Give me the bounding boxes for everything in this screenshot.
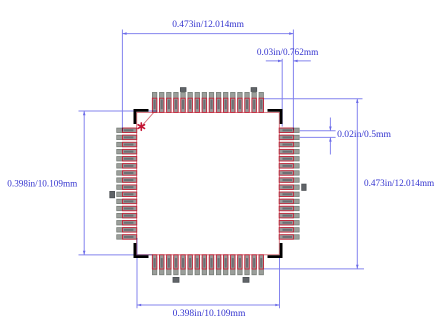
pad 40 (bottom row): [202, 255, 207, 275]
pad 27 (right column): [279, 199, 299, 204]
via square (right, near pad 25): [302, 184, 306, 190]
lead dimension arrow left (tail): [266, 60, 282, 62]
top dimension arrow left: [122, 32, 126, 35]
lead dimension arrow right (tail): [293, 60, 310, 62]
pitch dimension arrow upper: [329, 118, 331, 131]
pad 41 (bottom row): [209, 255, 214, 275]
pad 9 (left column): [117, 185, 137, 190]
left dimension arrow top: [83, 111, 86, 115]
svg-text:0.473in/12.014mm: 0.473in/12.014mm: [364, 179, 435, 189]
pad 5 (left column): [117, 156, 137, 161]
pad 3 (top row): [167, 92, 172, 112]
pad 16 (top row): [259, 92, 264, 112]
pad 2 (top row): [159, 92, 164, 112]
courtyard corner bracket (bottom-right): [268, 243, 283, 258]
pad 21 (right column): [279, 156, 299, 161]
via square (bottom, near pad 36): [173, 277, 179, 282]
pad 2 (left column): [117, 135, 137, 140]
pad 43 (bottom row): [223, 255, 228, 275]
pad 32 (right column): [279, 235, 299, 240]
pad 24 (right column): [279, 178, 299, 183]
top dimension line: [122, 33, 293, 35]
pin-1 asterisk marker: [138, 123, 144, 130]
pad 4 (top row): [174, 92, 179, 112]
pad 7 (left column): [117, 171, 137, 176]
right dimension 0.473in/12.014mm: extension line top: [264, 98, 363, 100]
pad 11 (top row): [223, 92, 228, 112]
courtyard corner bracket (bottom-left): [134, 243, 149, 258]
pitch dimension arrow lower: [329, 137, 331, 154]
pad 42 (bottom row): [216, 255, 221, 275]
pad 17 (right column): [279, 128, 299, 133]
top dimension arrow right: [289, 32, 293, 35]
pad 1 (top row): [152, 92, 157, 112]
component body outline (silkscreen square): [137, 112, 280, 254]
pad 31 (right column): [279, 228, 299, 233]
pad 23 (right column): [279, 171, 299, 176]
pad 8 (top row): [202, 92, 207, 112]
pad 12 (top row): [231, 92, 236, 112]
pitch dimension 0.02in/0.5mm: extension line upper: [300, 130, 336, 132]
right dimension arrow top: [356, 99, 359, 103]
pad 15 (left column): [117, 228, 137, 233]
bottom dimension arrow left: [137, 304, 141, 307]
pad 15 (top row): [252, 92, 257, 112]
pad 45 (bottom row): [238, 255, 243, 275]
pad 48 (bottom row): [259, 255, 264, 275]
bottom dimension 0.398in/10.109mm: extension line left: [136, 238, 138, 308]
right dimension arrow bottom: [356, 265, 359, 269]
pad 9 (top row): [209, 92, 214, 112]
top dimension: extension line right: [292, 30, 294, 131]
pad 1 (left column): [117, 128, 137, 133]
pad 10 (left column): [117, 192, 137, 197]
left dimension line: [83, 111, 85, 255]
lead dimension 0.03in/0.762mm: extension line left: [281, 59, 283, 127]
pad 13 (left column): [117, 213, 137, 218]
bottom dimension: extension line right: [279, 257, 281, 309]
pad 6 (top row): [188, 92, 193, 112]
pad 16 (left column): [117, 235, 137, 240]
pad 8 (left column): [117, 178, 137, 183]
pad 10 (top row): [216, 92, 221, 112]
left dimension arrow bottom: [83, 251, 86, 255]
courtyard corner bracket (top-left): [134, 109, 149, 124]
bottom dimension arrow right: [275, 304, 279, 307]
pad 36 (bottom row): [174, 255, 179, 275]
pad 18 (right column): [279, 135, 299, 140]
svg-text:0.03in/0.762mm: 0.03in/0.762mm: [257, 48, 319, 58]
pad 44 (bottom row): [231, 255, 236, 275]
svg-text:0.398in/10.109mm: 0.398in/10.109mm: [173, 309, 246, 319]
top dimension 0.473in/12.014mm: extension line left: [121, 30, 123, 132]
pad 38 (bottom row): [188, 255, 193, 275]
left dimension: extension line bottom: [79, 254, 153, 256]
pad 14 (left column): [117, 220, 137, 225]
via square (top, near pad 15): [251, 88, 257, 92]
svg-text:0.398in/10.109mm: 0.398in/10.109mm: [7, 180, 78, 190]
pad 13 (top row): [238, 92, 243, 112]
pin-1 indicator line: [141, 112, 154, 127]
pad 39 (bottom row): [195, 255, 200, 275]
left dimension 0.398in/10.109mm: extension line top: [79, 110, 158, 112]
pad 12 (left column): [117, 206, 137, 211]
pad 29 (right column): [279, 213, 299, 218]
courtyard corner bracket (top-right): [268, 109, 283, 124]
via square (top, near pad 5): [180, 88, 186, 92]
right dimension line: [356, 99, 358, 269]
pad 25 (right column): [279, 185, 299, 190]
pad 26 (right column): [279, 192, 299, 197]
via square (bottom, near pad 45): [243, 277, 249, 282]
pad 5 (top row): [181, 92, 186, 112]
pad 3 (left column): [117, 142, 137, 147]
pad 22 (right column): [279, 164, 299, 169]
svg-text:0.473in/12.014mm: 0.473in/12.014mm: [172, 20, 244, 30]
pad 7 (top row): [195, 92, 200, 112]
pad 47 (bottom row): [252, 255, 257, 275]
pad 20 (right column): [279, 149, 299, 154]
pad 19 (right column): [279, 142, 299, 147]
pad 28 (right column): [279, 206, 299, 211]
pad 35 (bottom row): [167, 255, 172, 275]
pad 14 (top row): [245, 92, 250, 112]
bottom dimension line: [137, 304, 280, 306]
pad 6 (left column): [117, 164, 137, 169]
via square (left, near pad 10): [110, 191, 115, 197]
pad 30 (right column): [279, 220, 299, 225]
pad 33 (bottom row): [152, 255, 157, 275]
svg-text:0.02in/0.5mm: 0.02in/0.5mm: [337, 130, 392, 140]
pad 4 (left column): [117, 149, 137, 154]
pad 34 (bottom row): [159, 255, 164, 275]
pitch dimension: extension line lower: [300, 136, 336, 138]
pad 37 (bottom row): [181, 255, 186, 275]
pad 46 (bottom row): [245, 255, 250, 275]
right dimension: extension line bottom: [264, 268, 364, 270]
pad 11 (left column): [117, 199, 137, 204]
